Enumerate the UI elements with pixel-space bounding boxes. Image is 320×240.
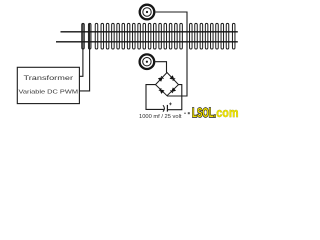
svg-text:LSOL.: LSOL.: [192, 105, 216, 120]
svg-text:Variable DC PWM: Variable DC PWM: [19, 90, 79, 96]
svg-text:1000 mf / 25 volt: 1000 mf / 25 volt: [139, 114, 182, 120]
svg-text:Transformer: Transformer: [24, 75, 74, 82]
svg-text:com: com: [216, 105, 238, 120]
